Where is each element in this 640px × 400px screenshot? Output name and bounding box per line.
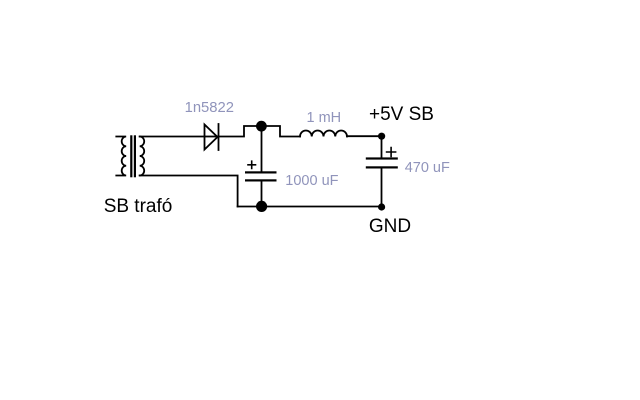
wire junction node A to inductor (step down) bbox=[262, 126, 301, 137]
capacitor C1 bottom lead bbox=[261, 182, 263, 207]
node GND at C2 (junction dot) bbox=[378, 203, 385, 210]
capacitor C2 470uF top lead bbox=[381, 136, 383, 158]
diode D1 cathode bar bbox=[218, 124, 220, 150]
wire through diode body bbox=[205, 136, 219, 138]
svg-text:1000 uF: 1000 uF bbox=[285, 173, 338, 189]
wire inductor to +5V SB node bbox=[347, 135, 382, 137]
inductor L1 1 mH bbox=[300, 131, 347, 137]
capacitor C2 plus sign bbox=[387, 148, 396, 157]
ground rail wire bbox=[238, 206, 382, 208]
junction node A (diode/C1/L1) bbox=[256, 121, 267, 132]
capacitor C1 bottom plate bbox=[245, 179, 277, 181]
svg-text:470 uF: 470 uF bbox=[405, 160, 450, 176]
capacitor C1 plus sign bbox=[248, 161, 256, 168]
wire transformer secondary bottom to ground rail bbox=[140, 176, 238, 207]
transformer T1 secondary winding bbox=[140, 137, 144, 176]
transformer T1 core bar 1 bbox=[130, 135, 132, 177]
wire diode cathode to junction node A (step up) bbox=[219, 126, 262, 137]
wire transformer secondary top to diode anode bbox=[140, 136, 205, 138]
svg-text:+5V SB: +5V SB bbox=[369, 104, 434, 125]
diode D1 1n5822 triangle bbox=[205, 125, 218, 150]
svg-text:1n5822: 1n5822 bbox=[185, 100, 234, 116]
junction node GND at C1 bbox=[256, 201, 267, 212]
svg-text:GND: GND bbox=[369, 216, 411, 237]
capacitor C2 bottom plate bbox=[366, 166, 398, 168]
capacitor C1 top plate bbox=[245, 171, 277, 173]
transformer T1 primary winding bbox=[116, 137, 126, 176]
capacitor C2 top plate bbox=[366, 157, 398, 159]
svg-text:SB trafó: SB trafó bbox=[104, 196, 173, 217]
capacitor C2 bottom lead bbox=[381, 169, 383, 207]
svg-text:1 mH: 1 mH bbox=[307, 110, 342, 126]
node +5V SB (junction dot) bbox=[378, 133, 385, 140]
capacitor C1 1000uF top lead bbox=[261, 126, 263, 171]
transformer T1 core bar 2 bbox=[134, 135, 136, 177]
